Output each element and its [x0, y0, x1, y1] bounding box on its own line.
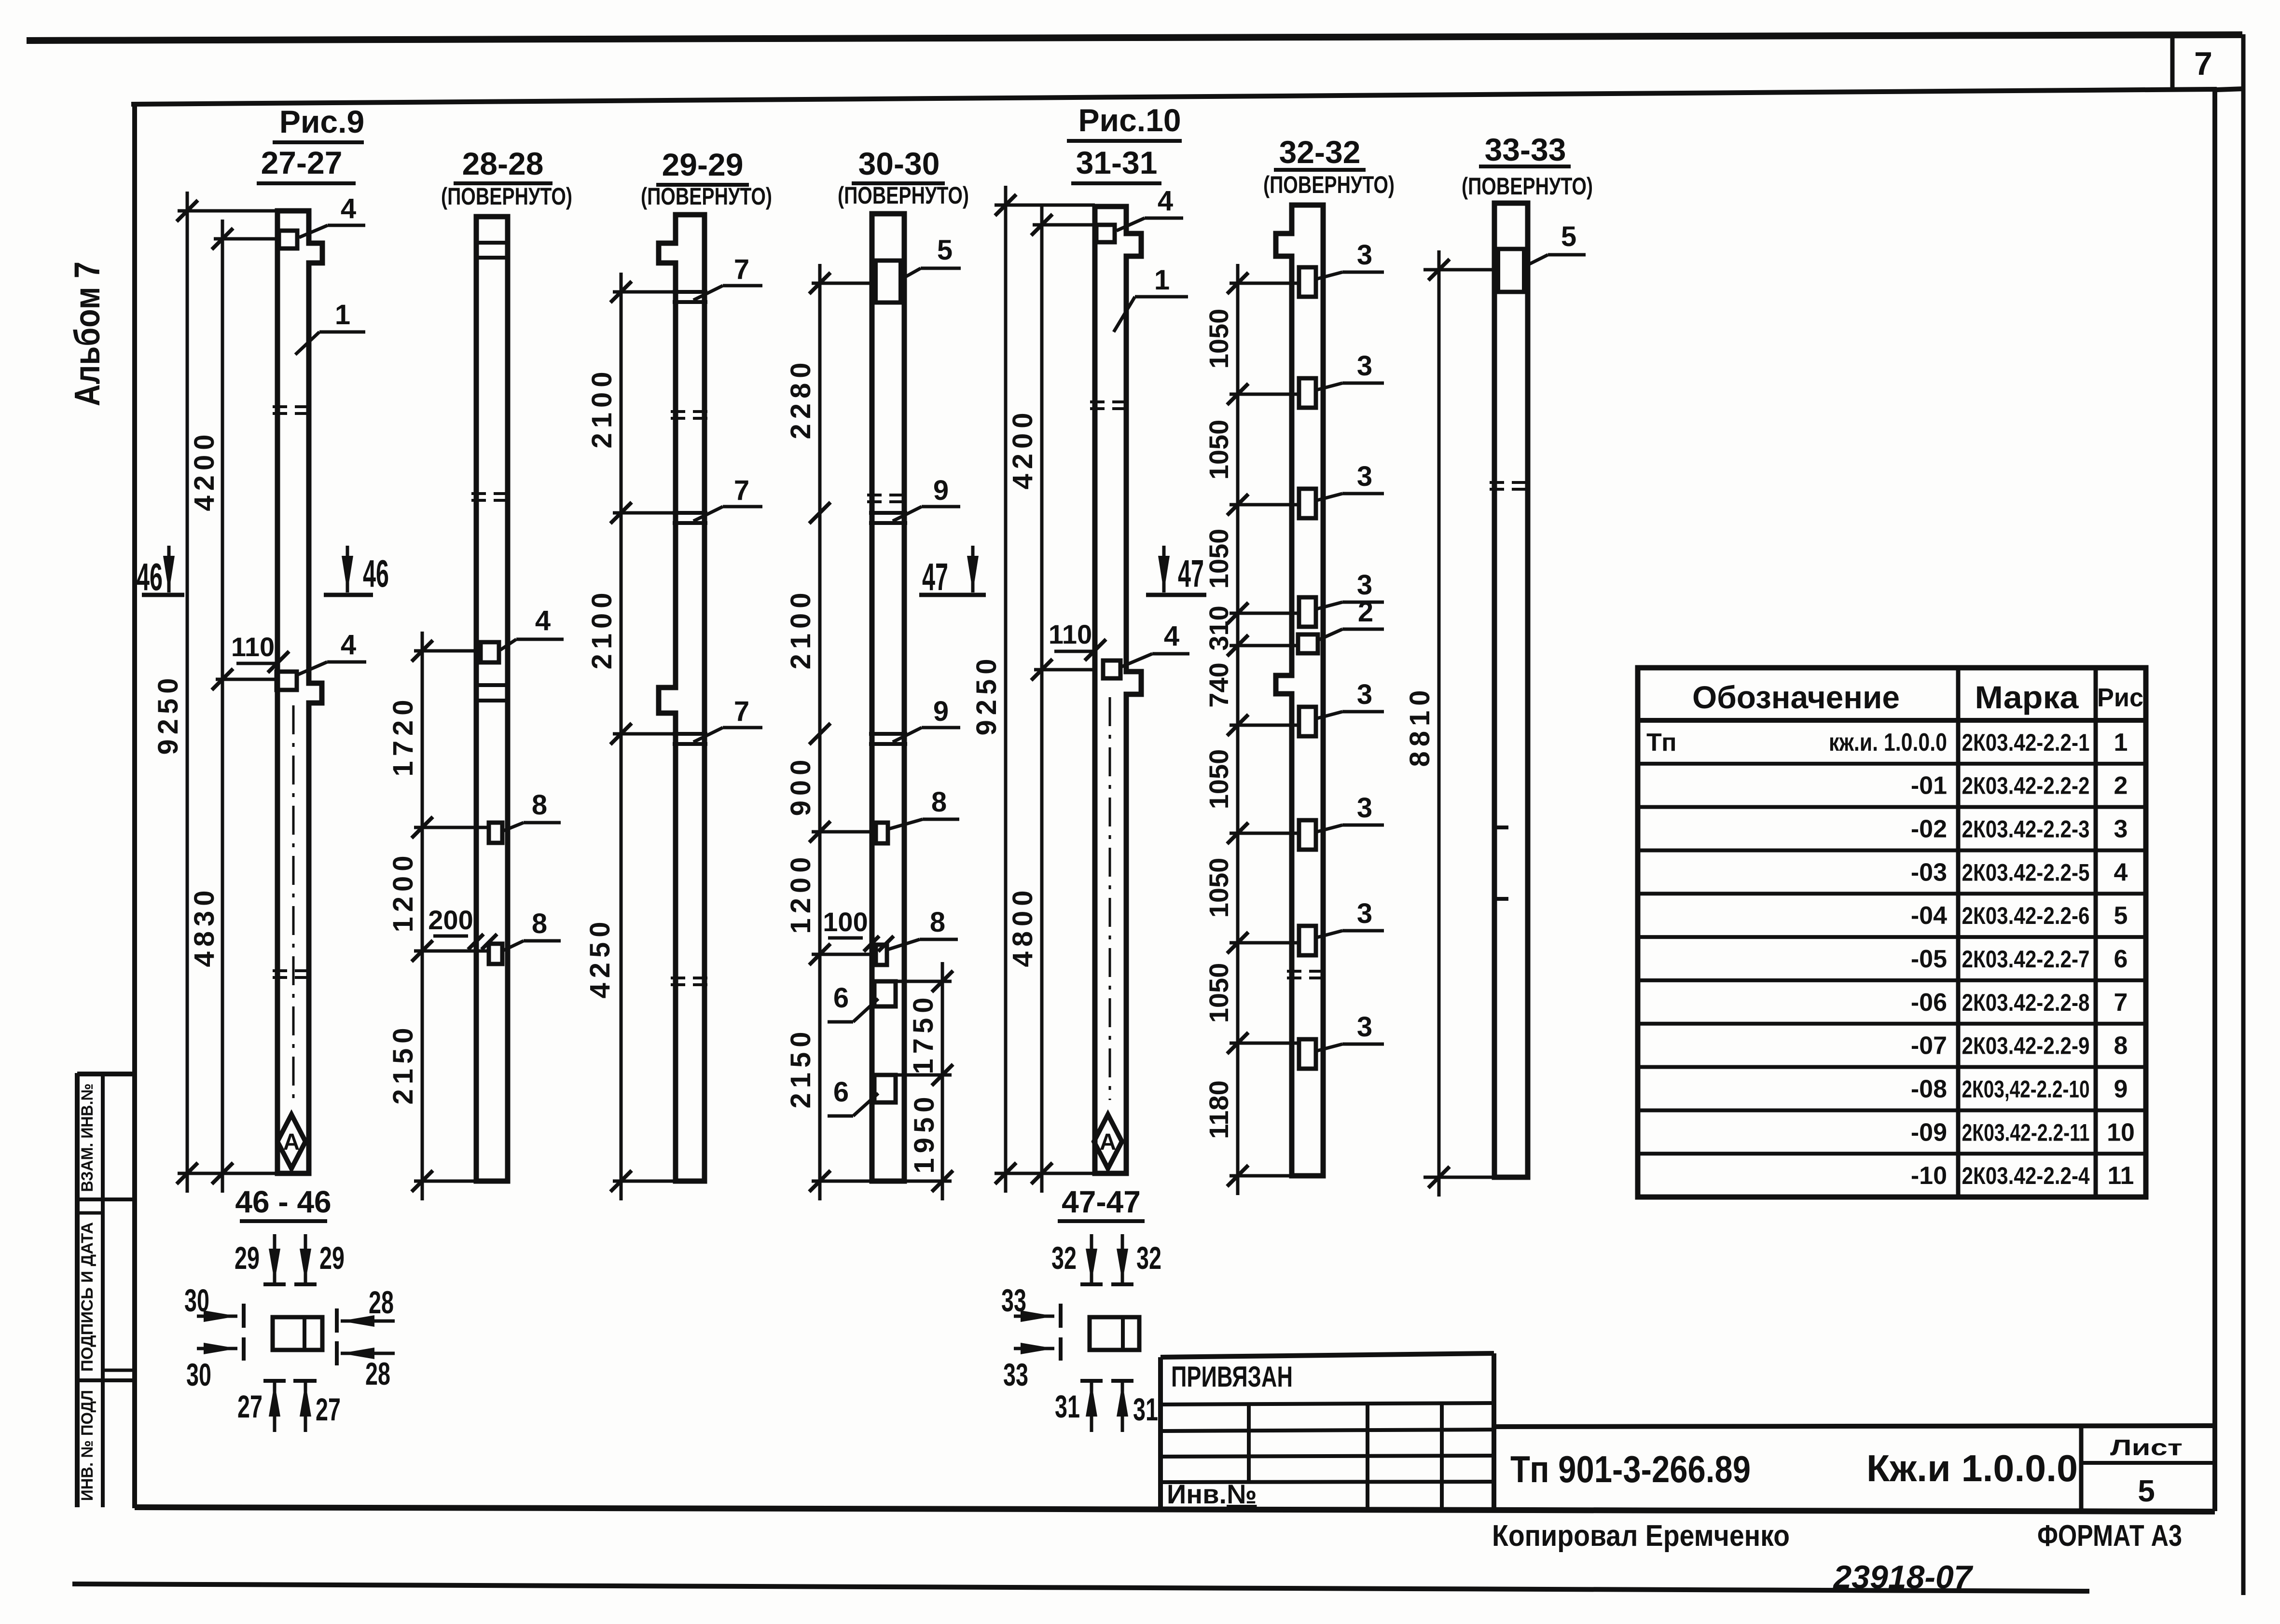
svg-text:4830: 4830 — [189, 885, 220, 967]
column 31-31 leader 4 mid — [1121, 654, 1152, 667]
extension lines (29-29) — [613, 290, 676, 294]
table row 4 — [1638, 892, 2146, 895]
svg-text:2100: 2100 — [586, 588, 618, 669]
dimension 1720/1200/2150 line (28-28) — [421, 632, 424, 1200]
svg-text:6: 6 — [833, 1076, 849, 1108]
svg-text:7: 7 — [734, 475, 749, 506]
svg-text:3: 3 — [1357, 350, 1372, 382]
svg-text:8: 8 — [532, 789, 547, 821]
page number box — [2170, 35, 2175, 89]
Лист box — [2079, 1426, 2084, 1510]
svg-text:6: 6 — [833, 982, 849, 1014]
svg-text:9: 9 — [933, 696, 949, 727]
column 31-31 break — [1090, 400, 1131, 403]
column 30-30 break — [867, 494, 909, 496]
svg-text:9: 9 — [933, 475, 949, 506]
left sidebar box — [75, 1073, 80, 1507]
frame right border — [2212, 89, 2217, 1511]
column 30-30 joint 2 — [869, 732, 907, 736]
svg-text:-06: -06 — [1911, 989, 1947, 1017]
svg-text:900: 900 — [785, 755, 816, 816]
section 47-47 arrows 31 up — [1080, 1379, 1103, 1383]
svg-text:(ПОВЕРНУТО): (ПОВЕРНУТО) — [641, 183, 772, 210]
svg-text:1720: 1720 — [387, 695, 419, 776]
svg-text:29-29: 29-29 — [662, 147, 744, 182]
svg-text:4250: 4250 — [584, 917, 616, 998]
svg-text:Обозначение: Обозначение — [1692, 679, 1900, 715]
svg-text:5: 5 — [2114, 902, 2128, 930]
column 27-27 leader 1 — [295, 332, 319, 355]
column 29-29 joint 3 — [673, 732, 707, 736]
svg-text:ФОРМАТ А3: ФОРМАТ А3 — [2037, 1519, 2182, 1553]
top ruling line — [27, 35, 2242, 41]
svg-text:(ПОВЕРНУТО): (ПОВЕРНУТО) — [1462, 173, 1593, 200]
svg-text:7: 7 — [2114, 989, 2128, 1017]
column 29-29 body — [659, 215, 705, 1181]
column 32-32 break — [1287, 970, 1328, 973]
svg-text:5: 5 — [937, 234, 953, 266]
column 31-31 embed square 4 mid — [1103, 661, 1120, 678]
svg-text:8: 8 — [931, 786, 947, 818]
svg-text:28: 28 — [365, 1356, 390, 1391]
column 27-27 leader 4 top — [299, 225, 328, 237]
column 29-29 leader 7 mid — [693, 507, 723, 521]
svg-text:28: 28 — [369, 1284, 394, 1320]
svg-text:32: 32 — [1136, 1240, 1161, 1276]
svg-text:ПОДПИСЬ И ДАТА: ПОДПИСЬ И ДАТА — [78, 1222, 97, 1372]
column 33-33 break — [1490, 481, 1533, 484]
column 30-30 leader 9 top — [893, 507, 922, 521]
dimension 9250 line (27-27) — [186, 192, 189, 1193]
section 46-46 arrows 29 down — [273, 1234, 276, 1282]
svg-text:4200: 4200 — [1007, 408, 1038, 489]
column 31-31 body — [1095, 206, 1141, 1173]
svg-text:32: 32 — [1051, 1240, 1077, 1276]
svg-text:46: 46 — [137, 555, 163, 598]
svg-text:А: А — [1100, 1129, 1117, 1155]
svg-text:31: 31 — [1055, 1389, 1080, 1424]
column 32-32 leader 3 #5 — [1317, 712, 1342, 718]
svg-text:ПРИВЯЗАН: ПРИВЯЗАН — [1171, 1361, 1293, 1393]
column 29-29 break bottom — [671, 977, 709, 979]
column 29-29 leader 7 top — [693, 286, 723, 300]
svg-text:27: 27 — [316, 1391, 341, 1427]
svg-text:1050: 1050 — [1203, 858, 1234, 918]
svg-text:-01: -01 — [1911, 772, 1947, 800]
svg-text:30-30: 30-30 — [858, 146, 940, 181]
section 47-47 cross-section rectangle — [1090, 1317, 1139, 1350]
svg-text:8: 8 — [532, 908, 547, 939]
svg-text:2100: 2100 — [586, 367, 618, 448]
table row 7 — [1638, 1022, 2146, 1026]
column 27-27 break bottom — [273, 969, 314, 972]
svg-text:8: 8 — [2114, 1032, 2128, 1060]
column 32-32 body — [1276, 205, 1323, 1176]
svg-text:Тп: Тп — [1646, 729, 1677, 757]
svg-text:2150: 2150 — [387, 1023, 419, 1104]
column 31-31 leader 1 — [1114, 297, 1135, 332]
svg-text:2150: 2150 — [785, 1027, 816, 1108]
column 28-28 leader 8 lower — [503, 941, 524, 950]
svg-text:2280: 2280 — [785, 358, 816, 439]
column 28-28 top joint band — [476, 241, 508, 245]
svg-text:47: 47 — [1178, 552, 1204, 595]
svg-text:2К03.42-2.2-5: 2К03.42-2.2-5 — [1962, 859, 2090, 886]
column 28-28 embed square 4 — [481, 642, 499, 662]
svg-text:Рис.10: Рис.10 — [1078, 102, 1181, 138]
column 28-28 break — [471, 492, 512, 495]
svg-text:2К03.42-2.2-8: 2К03.42-2.2-8 — [1962, 989, 2090, 1016]
svg-text:Рис: Рис — [2097, 683, 2143, 712]
svg-text:Копировал Еремченко: Копировал Еремченко — [1492, 1519, 1790, 1553]
sidebar inner vertical — [101, 1074, 105, 1507]
svg-text:2100: 2100 — [785, 588, 816, 669]
column 29-29 leader 7 bottom — [693, 728, 723, 742]
svg-text:-03: -03 — [1911, 858, 1947, 886]
column 31-31 centerline — [1109, 697, 1111, 1100]
svg-text:3: 3 — [1357, 898, 1372, 929]
table frame — [1638, 668, 2146, 1197]
svg-text:-05: -05 — [1911, 945, 1947, 973]
column 30-30 opening 6 upper — [874, 981, 896, 1006]
svg-text:-09: -09 — [1911, 1118, 1947, 1146]
svg-text:1: 1 — [1154, 264, 1170, 296]
table row 1 — [1638, 762, 2146, 766]
column 29-29 joint 2 — [673, 511, 707, 515]
svg-text:3: 3 — [1357, 792, 1372, 824]
section 46-46 arrows 27 up — [263, 1379, 286, 1383]
svg-text:2К03.42-2.2-6: 2К03.42-2.2-6 — [1962, 902, 2090, 929]
svg-text:28-28: 28-28 — [462, 146, 544, 181]
column 32-32 leader 3 #4 — [1317, 602, 1342, 609]
svg-text:Тп 901-3-266.89: Тп 901-3-266.89 — [1510, 1448, 1751, 1490]
svg-text:Лист: Лист — [2110, 1435, 2183, 1460]
svg-text:3: 3 — [2114, 815, 2128, 843]
column 30-30 body — [872, 214, 904, 1181]
svg-text:46 - 46: 46 - 46 — [235, 1184, 331, 1219]
svg-text:47: 47 — [922, 555, 948, 598]
column 32-32 plate 3 #1 — [1299, 267, 1316, 297]
svg-text:4800: 4800 — [1007, 885, 1038, 967]
svg-text:Рис.9: Рис.9 — [279, 104, 364, 139]
section mark 46 right — [346, 546, 349, 592]
column 32-32 plate 3 #3 — [1299, 489, 1316, 518]
column 30-30 insert band 5 — [872, 259, 904, 263]
column 27-27 diamond А — [277, 1115, 305, 1169]
svg-text:ИНВ. № ПОДЛ: ИНВ. № ПОДЛ — [78, 1390, 97, 1501]
svg-text:110: 110 — [1049, 619, 1092, 649]
column 32-32 plate 3 #5 — [1299, 707, 1316, 736]
svg-text:8: 8 — [930, 907, 945, 938]
column 32-32 leader 3 #7 — [1317, 931, 1342, 937]
dimension 2100/2100/4250 line (29-29) — [620, 273, 623, 1200]
svg-text:2: 2 — [2114, 772, 2128, 800]
svg-text:1750: 1750 — [908, 992, 939, 1074]
svg-text:-08: -08 — [1911, 1075, 1947, 1103]
extension lines (33-33) — [1423, 268, 1494, 272]
extension lines (30-30) — [812, 282, 872, 285]
column 32-32 leader 3 #1 — [1317, 272, 1342, 279]
svg-text:1: 1 — [2114, 729, 2128, 757]
column 28-28 mid joint band — [476, 683, 508, 687]
svg-text:33-33: 33-33 — [1485, 132, 1566, 167]
svg-text:8810: 8810 — [1404, 685, 1436, 767]
column 29-29 joint 1 — [673, 290, 707, 294]
column 30-30 plate 8 lower — [876, 945, 887, 965]
column 30-30 leader 8 upper — [889, 819, 923, 829]
svg-text:100: 100 — [823, 907, 868, 937]
svg-text:200: 200 — [428, 905, 473, 935]
svg-text:33: 33 — [1003, 1357, 1028, 1392]
svg-text:4: 4 — [1164, 620, 1179, 652]
svg-text:А: А — [283, 1129, 300, 1155]
svg-text:1: 1 — [335, 299, 350, 330]
column 33-33 joint marks — [1494, 826, 1508, 829]
svg-text:(ПОВЕРНУТО): (ПОВЕРНУТО) — [441, 183, 572, 210]
dimension 9250 line (31-31) — [1004, 186, 1008, 1193]
extension lines (32-32) — [1230, 282, 1299, 285]
title block ПРИВЯЗАН box — [1161, 1353, 1494, 1357]
title block row lines — [1161, 1403, 1494, 1404]
svg-text:1050: 1050 — [1203, 963, 1234, 1023]
svg-text:29: 29 — [235, 1240, 260, 1276]
section mark 47 right — [1162, 546, 1166, 592]
table column line 1 — [1956, 668, 1961, 1197]
svg-text:4: 4 — [341, 629, 356, 661]
column 32-32 plate 3 #7 — [1299, 926, 1316, 955]
column 27-27 centerline — [292, 705, 295, 1100]
svg-text:2К03.42-2.2-7: 2К03.42-2.2-7 — [1962, 946, 2090, 973]
column 28-28 plate 8 lower — [489, 944, 502, 964]
column 28-28 leader 8 upper — [503, 823, 524, 831]
sidebar separator 2 — [77, 1378, 135, 1382]
svg-text:(ПОВЕРНУТО): (ПОВЕРНУТО) — [1263, 171, 1395, 198]
outer right border — [2241, 34, 2246, 1595]
dimension line 1050x6/310/740/1180 (32-32) — [1236, 264, 1240, 1195]
svg-text:1050: 1050 — [1203, 529, 1234, 589]
title strip box — [1494, 1426, 2215, 1427]
table row 9 — [1638, 1108, 2146, 1112]
svg-text:4: 4 — [341, 193, 356, 224]
svg-text:9250: 9250 — [971, 654, 1002, 735]
svg-text:9: 9 — [2114, 1075, 2128, 1103]
column 27-27 embed square 4 top — [279, 231, 297, 248]
svg-text:23918-07: 23918-07 — [1832, 1559, 1974, 1596]
svg-text:3: 3 — [1357, 461, 1372, 492]
sidebar partial divider — [103, 1369, 135, 1372]
svg-text:4: 4 — [1158, 185, 1173, 217]
svg-text:7: 7 — [2194, 45, 2212, 82]
svg-text:3: 3 — [1357, 679, 1372, 710]
svg-text:-10: -10 — [1911, 1162, 1947, 1190]
svg-text:4: 4 — [2114, 858, 2128, 886]
column 32-32 plate 3 #4 — [1299, 597, 1316, 627]
svg-text:740: 740 — [1203, 662, 1234, 707]
column 30-30 leader 8 lower — [888, 939, 920, 950]
top strip second line / frame top — [131, 89, 2217, 104]
dimension 4200/4830 line (27-27) — [221, 220, 224, 1193]
column 30-30 joint 1 — [869, 511, 907, 515]
svg-text:110: 110 — [231, 632, 275, 662]
svg-text:2: 2 — [1358, 596, 1373, 628]
column 32-32 leader 2 — [1319, 629, 1342, 640]
svg-text:29: 29 — [319, 1240, 345, 1276]
extension lines (31-31) — [995, 204, 1095, 207]
section 46-46 cross-section rectangle — [273, 1317, 322, 1350]
column 31-31 leader 4 top — [1117, 218, 1145, 231]
svg-text:1050: 1050 — [1203, 309, 1234, 369]
svg-text:2К03.42-2.2-1: 2К03.42-2.2-1 — [1962, 729, 2090, 756]
svg-text:11: 11 — [2108, 1162, 2134, 1190]
svg-text:2К03,42-2.2-10: 2К03,42-2.2-10 — [1962, 1075, 2090, 1102]
column 32-32 plate 2 — [1298, 634, 1318, 653]
svg-text:4200: 4200 — [189, 429, 220, 511]
table row 8 — [1638, 1065, 2146, 1069]
svg-text:Кж.и 1.0.0.0: Кж.и 1.0.0.0 — [1866, 1447, 2078, 1489]
svg-text:310: 310 — [1203, 606, 1234, 650]
right dimension 1750/1950 line (30-30) — [941, 962, 944, 1200]
column 29-29 break top — [671, 410, 709, 413]
svg-text:(ПОВЕРНУТО): (ПОВЕРНУТО) — [838, 182, 969, 209]
svg-text:Марка: Марка — [1975, 679, 2079, 715]
svg-text:7: 7 — [734, 254, 749, 285]
extension lines (28-28) — [414, 649, 481, 653]
column 33-33 insert band 5 — [1494, 247, 1528, 251]
column 28-28 leader 4 — [500, 639, 516, 650]
svg-text:4: 4 — [535, 605, 551, 636]
column 32-32 plate 3 #6 — [1299, 820, 1316, 850]
column 31-31 diamond А — [1094, 1115, 1122, 1169]
column 28-28 body — [476, 217, 508, 1181]
column 31-31 embed square 4 top — [1096, 225, 1115, 242]
column 27-27 break top — [273, 405, 314, 408]
svg-text:1200: 1200 — [387, 851, 419, 932]
dimension 2280/2100/900/1200/2150 line (30-30) — [818, 264, 822, 1200]
svg-text:2К03.42-2.2-11: 2К03.42-2.2-11 — [1962, 1119, 2090, 1146]
frame bottom border — [135, 1507, 2215, 1512]
svg-text:32-32: 32-32 — [1279, 134, 1361, 170]
table row 6 — [1638, 978, 2146, 982]
svg-text:5: 5 — [2138, 1473, 2155, 1508]
extension lines (27-27) — [178, 209, 277, 213]
svg-text:ВЗАМ. ИНВ.№: ВЗАМ. ИНВ.№ — [78, 1084, 97, 1192]
column 32-32 leader 3 #2 — [1317, 383, 1342, 390]
section 47-47 arrows 32 down — [1090, 1234, 1093, 1282]
svg-text:2К03.42-2.2-9: 2К03.42-2.2-9 — [1962, 1032, 2090, 1060]
svg-text:Инв.№: Инв.№ — [1167, 1479, 1257, 1509]
paper bottom edge line — [72, 1584, 2089, 1591]
svg-text:1200: 1200 — [785, 852, 816, 934]
column 27-27 body — [277, 211, 322, 1173]
svg-text:-04: -04 — [1911, 902, 1947, 930]
svg-text:6: 6 — [2114, 945, 2128, 973]
svg-text:2К03.42-2.2-4: 2К03.42-2.2-4 — [1962, 1162, 2090, 1189]
svg-text:1050: 1050 — [1203, 420, 1234, 480]
column 32-32 leader 3 #8 — [1317, 1044, 1342, 1051]
right extension lines (30-30) — [896, 980, 952, 983]
column 33-33 body — [1494, 203, 1528, 1177]
svg-text:7: 7 — [734, 696, 749, 727]
column 33-33 leader 5 — [1529, 255, 1548, 264]
sidebar separator 1b — [77, 1211, 103, 1215]
page number box bottom extension — [2217, 89, 2243, 90]
title block verticals — [1247, 1404, 1251, 1482]
svg-text:2К03.42-2.2-2: 2К03.42-2.2-2 — [1962, 772, 2090, 799]
table column line 2 — [2094, 668, 2098, 1197]
dimension 4200/4800 line (31-31) — [1040, 206, 1044, 1193]
svg-text:1950: 1950 — [909, 1092, 940, 1173]
table row 2 — [1638, 805, 2146, 809]
column 28-28 plate 8 upper — [489, 823, 502, 843]
table header separator — [1638, 718, 2146, 723]
sidebar separator 1 — [77, 1197, 135, 1201]
column 30-30 plate 8 upper — [876, 823, 888, 843]
frame left border — [132, 104, 137, 1508]
svg-text:3: 3 — [1357, 1011, 1372, 1043]
table row 3 — [1638, 848, 2146, 852]
svg-text:27: 27 — [237, 1389, 263, 1424]
svg-text:-07: -07 — [1911, 1032, 1947, 1060]
svg-text:1050: 1050 — [1203, 749, 1234, 810]
svg-text:-02: -02 — [1911, 815, 1947, 843]
svg-text:кж.и. 1.0.0.0: кж.и. 1.0.0.0 — [1829, 729, 1947, 757]
column 32-32 plate 3 #2 — [1299, 378, 1316, 408]
column 30-30 leader 9 bottom — [893, 728, 922, 742]
table row 5 — [1638, 935, 2146, 939]
svg-text:3: 3 — [1357, 239, 1372, 271]
svg-text:1180: 1180 — [1203, 1080, 1234, 1139]
column 30-30 leader 5 — [905, 268, 921, 277]
svg-text:47-47: 47-47 — [1062, 1184, 1141, 1219]
svg-text:31-31: 31-31 — [1076, 145, 1158, 180]
svg-text:46: 46 — [363, 552, 389, 595]
column 27-27 embed square 4 mid — [276, 672, 297, 690]
svg-text:27-27: 27-27 — [261, 145, 343, 180]
column 32-32 leader 3 #3 — [1317, 494, 1342, 500]
table row 10 — [1638, 1152, 2146, 1156]
svg-text:31: 31 — [1133, 1391, 1158, 1427]
column 30-30 opening 6 lower — [874, 1075, 896, 1102]
svg-text:2К03.42-2.2-3: 2К03.42-2.2-3 — [1962, 816, 2090, 843]
svg-text:Альбом 7: Альбом 7 — [67, 261, 107, 406]
column 32-32 leader 3 #6 — [1317, 825, 1342, 832]
svg-text:10: 10 — [2107, 1118, 2135, 1146]
column 32-32 plate 3 #8 — [1299, 1039, 1316, 1069]
svg-text:9250: 9250 — [152, 673, 184, 755]
dimension 8810 line (33-33) — [1437, 250, 1441, 1197]
column 27-27 leader 4 mid — [298, 662, 327, 674]
svg-text:5: 5 — [1561, 221, 1576, 252]
svg-text:30: 30 — [186, 1357, 211, 1392]
